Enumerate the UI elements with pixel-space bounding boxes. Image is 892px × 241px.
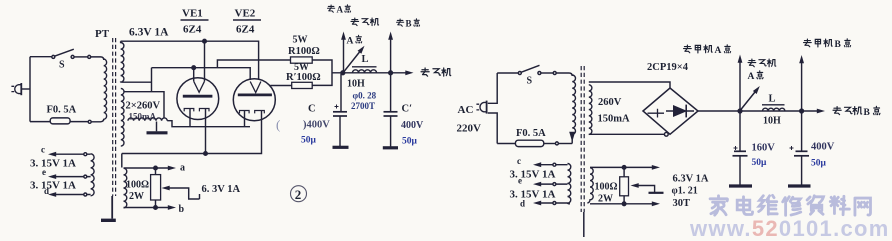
diagonal pointer to A point [344, 50, 362, 72]
resistor tap arrow [167, 188, 200, 199]
svg-text:150mA: 150mA [598, 114, 630, 125]
HT winding top wire [124, 92, 164, 118]
svg-text:3. 15V 1A: 3. 15V 1A [30, 180, 76, 192]
switch S (right) [518, 65, 556, 74]
ground (400V cap) [788, 184, 811, 187]
svg-text:50μ: 50μ [301, 136, 317, 146]
260V 150mA HT winding [589, 85, 592, 135]
svg-text:VE2: VE2 [235, 8, 256, 20]
svg-text:B: B [864, 108, 871, 118]
svg-text:R100Ω: R100Ω [288, 46, 320, 57]
resistor 100 ohm 2W (hum balance) [151, 175, 161, 200]
svg-text:50μ: 50μ [752, 158, 768, 168]
svg-text:2×260V: 2×260V [126, 101, 161, 112]
wire: terminal b [124, 207, 172, 209]
node on wire C at VE1 left pin [192, 66, 196, 70]
svg-text:S: S [527, 76, 533, 87]
svg-text:400V: 400V [401, 120, 424, 131]
svg-text:400V: 400V [811, 142, 835, 153]
node B (junction) [389, 71, 393, 75]
node on wire A [203, 39, 207, 43]
svg-text:B: B [406, 19, 412, 29]
wire: switch to primary top [91, 57, 104, 60]
svg-text:6Z4: 6Z4 [236, 24, 255, 36]
transformer core (right) [580, 66, 582, 212]
label 去B点 [396, 19, 403, 26]
wire C: plate rail [152, 68, 251, 80]
wire: HT bottom to bridge [589, 133, 665, 135]
svg-text:3. 15V 1A: 3. 15V 1A [510, 188, 556, 200]
svg-text:www.520101.com: www.520101.com [689, 216, 890, 241]
fuse F0.5A [30, 118, 104, 124]
capacitor C' 50u/400V [390, 73, 392, 112]
wire B: to resistor R [217, 60, 290, 68]
svg-text:50μ: 50μ [811, 159, 827, 169]
svg-text:e: e [42, 167, 46, 177]
svg-text:(: ( [276, 117, 280, 132]
6.3V heater winding (right circuit) [587, 168, 593, 203]
terminal c (right) [537, 164, 568, 166]
arrow up to A (tall) [739, 59, 741, 111]
arrow up to B [390, 36, 392, 73]
svg-text:2W: 2W [129, 191, 144, 202]
svg-text:B: B [835, 40, 842, 50]
svg-text:R′100Ω: R′100Ω [286, 72, 321, 83]
node A' (junction) [738, 109, 742, 113]
terminal c [52, 153, 91, 155]
svg-text:150mA: 150mA [129, 112, 157, 122]
wire: left rail [29, 57, 31, 122]
B+ main line (left circuit) [332, 72, 409, 74]
resistor R' 100ohm 5W [292, 82, 313, 88]
svg-text:C′: C′ [402, 104, 413, 115]
node at resistor top [154, 166, 158, 170]
svg-text:F0. 5A: F0. 5A [47, 105, 77, 116]
svg-text:d: d [44, 186, 49, 196]
wire: switch feed [30, 56, 52, 58]
label 去甲机A点 [684, 45, 713, 53]
B+ rail to heater winding a-terminal [121, 154, 123, 168]
svg-text:2: 2 [295, 187, 302, 202]
wire: 6.3V top [590, 166, 655, 168]
node: cathode junction on B+ rail [204, 152, 208, 156]
svg-text:C: C [308, 104, 316, 115]
label 去乙机 / A点 [748, 59, 776, 67]
terminal d (right) [537, 202, 568, 204]
HT secondary winding 2x260V [121, 89, 124, 147]
svg-text:260V: 260V [598, 97, 622, 108]
plug P1 (mains plug left circuit) [11, 83, 30, 95]
fuse F0.5A (right) [497, 140, 572, 146]
svg-text:30T: 30T [673, 198, 691, 209]
svg-text:3. 15V 1A: 3. 15V 1A [510, 169, 556, 181]
terminal e [52, 176, 91, 178]
svg-text:c: c [41, 145, 45, 155]
label 去乙机 (right end) [421, 68, 451, 76]
svg-text:2700T: 2700T [351, 101, 375, 111]
secondary winding 6.3V 1A (top heater winding) [121, 41, 124, 82]
arrow up to B (right) [801, 60, 803, 112]
node A (junction) [341, 71, 345, 75]
wire: VE1 cathode leg to B+ rail [205, 109, 207, 154]
ground (160V cap) [729, 184, 752, 187]
svg-text:L: L [362, 54, 369, 65]
ground (C) [333, 146, 349, 149]
tube VE1 (6Z4) [177, 78, 219, 120]
wire: 6.3V bottom to node [124, 81, 152, 83]
svg-text:100Ω: 100Ω [595, 182, 618, 193]
wire: winding to heater bus [167, 121, 250, 127]
svg-text:A: A [347, 37, 354, 47]
terminal d [52, 194, 91, 196]
svg-text:b: b [179, 204, 185, 215]
svg-text:100Ω: 100Ω [126, 180, 149, 191]
wire: VE1 right pin drop [204, 41, 206, 81]
svg-text:50μ: 50μ [402, 137, 418, 147]
svg-text:6.3V 1A: 6.3V 1A [673, 174, 709, 185]
ground (C') [383, 146, 398, 149]
wire: switch feed [497, 72, 518, 74]
ground (transformer core) [101, 219, 116, 222]
svg-text:d: d [520, 199, 525, 209]
wire: VE1 heater left leg [189, 109, 191, 127]
wire: 6.3V bottom [590, 203, 655, 205]
wire: switch to primary [556, 73, 572, 76]
resistor R 100ohm 5W [291, 57, 313, 63]
svg-text:2CP19×4: 2CP19×4 [647, 62, 689, 73]
wire: HT top to bridge [589, 82, 670, 88]
wire: VE1 left pin drop [193, 68, 195, 82]
wire: terminal a [124, 167, 172, 169]
capacitor C 50u/400V [341, 73, 343, 112]
node B' (junction) [800, 109, 804, 113]
resistor tap arrow (right) [635, 186, 664, 193]
svg-text:6.3V 1A: 6.3V 1A [129, 27, 169, 39]
svg-text:2W: 2W [598, 194, 613, 205]
node at resistor bottom [154, 206, 158, 210]
HT filament winding (horizontal) [128, 118, 167, 121]
junction ring at bridge bottom [664, 132, 668, 136]
svg-text:3. 15V 1A: 3. 15V 1A [30, 158, 76, 170]
transformer PT core [112, 38, 114, 196]
tube VE2 (6Z4) [233, 79, 275, 121]
wire: fuse to primary bottom with arrow [571, 134, 573, 144]
svg-text:AC: AC [458, 104, 474, 116]
svg-text:VE1: VE1 [182, 8, 203, 20]
wire: center tap drop [156, 122, 158, 132]
svg-text:10H: 10H [763, 116, 781, 127]
svg-text:A: A [715, 46, 722, 56]
choke L 10H (right) [762, 104, 785, 106]
svg-text:φ1. 21: φ1. 21 [672, 186, 698, 197]
terminal e (right) [537, 183, 568, 185]
capacitor 400V 50u [801, 111, 803, 151]
svg-text:S: S [59, 60, 65, 71]
wire: VE2 plate to R' [270, 85, 291, 87]
B+ main line (right circuit) [698, 110, 820, 112]
svg-text:PT: PT [95, 28, 110, 40]
wire: VE2 heater left leg [244, 111, 246, 127]
svg-text:)400V: )400V [303, 120, 330, 131]
svg-text:a: a [180, 163, 185, 174]
watermark 家电维修资料网 [710, 195, 870, 215]
arrow up to A [343, 36, 345, 73]
resistor 100 ohm 2W (right) [620, 177, 629, 196]
3.15V windings (left side of PT) [91, 154, 95, 196]
svg-text:220V: 220V [457, 123, 482, 135]
svg-text:A: A [748, 72, 755, 82]
polarity + [335, 105, 339, 109]
label 去乙机 (top) [351, 18, 379, 26]
svg-text:6Z4: 6Z4 [183, 24, 202, 36]
bridge rectifier 2CP19x4 [643, 88, 698, 134]
core ground stem [111, 196, 113, 219]
transformer primary winding (right) [572, 75, 575, 134]
switch S [52, 49, 91, 58]
svg-text:F0. 5A: F0. 5A [516, 128, 546, 139]
wire: node joining wire C to HT winding [151, 68, 153, 92]
capacitor 160V 50u [739, 111, 741, 151]
choke L 10H [352, 66, 377, 68]
svg-text:e: e [518, 175, 522, 185]
svg-text:160V: 160V [752, 143, 776, 154]
wire: rail with plug notch [488, 73, 497, 144]
svg-text:φ0. 28: φ0. 28 [353, 91, 377, 101]
svg-text:10H: 10H [347, 79, 365, 90]
svg-text:c: c [517, 156, 521, 166]
wire A: heater top rail [121, 41, 259, 80]
label 去乙机B点 (right end) [833, 107, 862, 115]
svg-text:L: L [769, 94, 776, 105]
plug P2 (mains plug right circuit) [476, 101, 486, 114]
3.15V windings (right circuit) [568, 163, 571, 203]
label 去A点 [327, 5, 334, 12]
svg-text:6. 3V 1A: 6. 3V 1A [202, 184, 241, 195]
label 去甲机B点 [804, 39, 833, 47]
transformer PT primary winding [104, 59, 107, 119]
svg-text:A: A [337, 5, 344, 15]
svg-text:5W: 5W [293, 35, 308, 46]
ground (HT center tap) [147, 131, 168, 134]
lower heater winding 6.3V [124, 168, 127, 208]
diagonal pointer to A point [741, 90, 758, 111]
circled figure number 2 [291, 186, 307, 202]
wire: VE2 cathode leg to B+ rail [122, 111, 262, 154]
wire: R outputs joined [312, 60, 332, 85]
